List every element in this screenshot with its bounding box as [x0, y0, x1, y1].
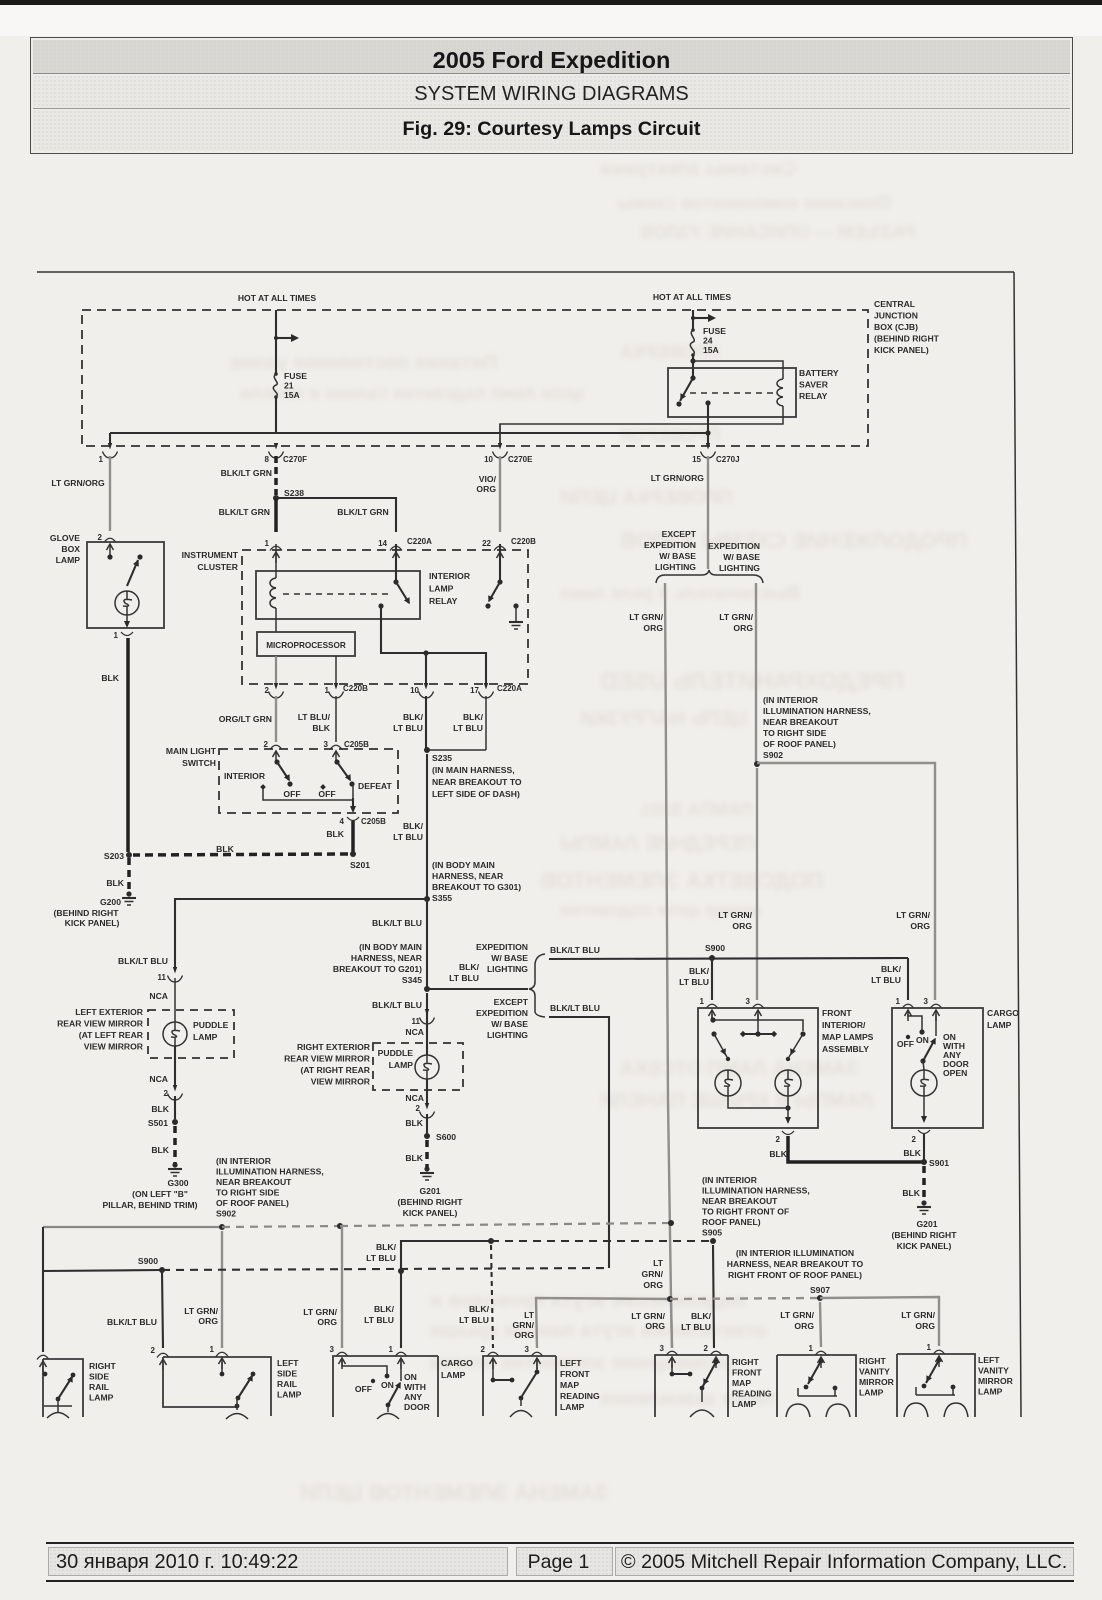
svg-text:ORG: ORG [514, 1330, 534, 1340]
relay switch pivot dot [690, 375, 695, 380]
svg-text:BLK: BLK [312, 723, 330, 733]
svg-text:S355: S355 [432, 893, 452, 903]
svg-text:BLK/LT GRN: BLK/LT GRN [219, 507, 270, 517]
svg-text:ORG: ORG [794, 1321, 814, 1331]
wire S902 branch to cargo lamp pin 3 [757, 763, 935, 1000]
svg-text:15A: 15A [284, 390, 300, 400]
svg-text:(IN INTERIOR: (IN INTERIOR [763, 695, 819, 705]
svg-text:HARNESS, NEAR: HARNESS, NEAR [432, 871, 504, 881]
svg-text:(IN INTERIOR ILLUMINATION: (IN INTERIOR ILLUMINATION [736, 1248, 854, 1258]
svg-text:RAIL: RAIL [89, 1382, 109, 1392]
svg-text:LAMP: LAMP [560, 1402, 585, 1412]
rfm switch arm [703, 1362, 716, 1386]
right vanity bulbs [786, 1404, 810, 1417]
cargo pin3 wire [935, 1014, 937, 1036]
bus S902 dashed to except-wire [340, 1223, 671, 1226]
svg-text:SIDE: SIDE [277, 1369, 297, 1379]
connector pin 22 C220B into cluster [494, 546, 506, 550]
interior contact dot [260, 784, 266, 790]
svg-text:BLK: BLK [769, 1149, 787, 1159]
switch connector pin 2 [270, 745, 282, 749]
cluster relay switch feed from pin 14 [395, 544, 397, 582]
svg-text:PILLAR, BEHIND TRIM): PILLAR, BEHIND TRIM) [102, 1200, 197, 1210]
right rail switch arm [58, 1377, 72, 1399]
ground G200 [126, 891, 131, 896]
svg-text:MAP: MAP [732, 1378, 751, 1388]
cargo bottom pin1 wire [400, 1360, 402, 1381]
svg-text:EXPEDITION: EXPEDITION [476, 1008, 528, 1018]
svg-text:FRONT: FRONT [560, 1369, 590, 1379]
svg-text:LT BLU: LT BLU [366, 1253, 396, 1263]
right map lamp arm end dot [786, 1057, 790, 1061]
svg-text:LT GRN/: LT GRN/ [184, 1306, 218, 1316]
svg-text:24: 24 [703, 336, 713, 346]
right front map reading lamp box [655, 1355, 728, 1417]
svg-text:BLK/LT BLU: BLK/LT BLU [118, 956, 168, 966]
svg-text:RAIL: RAIL [277, 1379, 297, 1389]
relay coil output wire [500, 406, 783, 444]
switch arm 1 pivot dot [274, 759, 279, 764]
svg-text:OFF: OFF [318, 789, 335, 799]
wire LT GRN/ORG to glove box lamp [109, 456, 111, 531]
bus S905 dashed [491, 1240, 713, 1242]
wire fuse 24 to relay [692, 355, 694, 378]
brace expedition split [529, 954, 545, 1017]
svg-text:LEFT: LEFT [560, 1358, 582, 1368]
svg-text:TO RIGHT SIDE: TO RIGHT SIDE [216, 1188, 280, 1198]
junction dot on CJB bus at relay output [705, 430, 710, 435]
svg-text:LAMP: LAMP [429, 584, 454, 594]
wire ORG/LT GRN pin2 to switch [275, 696, 277, 742]
svg-text:SAVER: SAVER [799, 380, 829, 390]
svg-text:1: 1 [809, 1344, 814, 1353]
svg-text:LAMP: LAMP [193, 1032, 218, 1042]
svg-text:LIGHTING: LIGHTING [487, 964, 528, 974]
svg-text:(BEHIND RIGHT: (BEHIND RIGHT [398, 1197, 464, 1207]
left rail connector pin 2 [157, 1353, 169, 1357]
svg-text:BLK/: BLK/ [403, 821, 424, 831]
svg-text:W/ BASE: W/ BASE [491, 1019, 528, 1029]
switch from pin 22 feed [499, 544, 501, 582]
splice S901 [921, 1159, 927, 1165]
svg-text:LIGHTING: LIGHTING [655, 562, 696, 572]
svg-text:NEAR BREAKOUT: NEAR BREAKOUT [763, 717, 839, 727]
svg-text:OPEN: OPEN [943, 1068, 967, 1078]
svg-text:MAIN LIGHT: MAIN LIGHT [166, 746, 217, 756]
svg-text:11: 11 [412, 1017, 421, 1026]
svg-text:BLK/: BLK/ [463, 712, 484, 722]
header figure caption band: Fig. 29 Courtesy Lamps Circuit [33, 110, 1070, 151]
svg-text:1: 1 [896, 997, 901, 1006]
right side rail lamp box [43, 1359, 83, 1417]
junction dot fuse 24 output [690, 358, 695, 363]
svg-text:REAR VIEW MIRROR: REAR VIEW MIRROR [284, 1054, 371, 1064]
svg-text:OF ROOF PANEL): OF ROOF PANEL) [763, 739, 836, 749]
cargo feed jog [908, 1014, 922, 1030]
cargo bottom connector pin 3 [336, 1352, 348, 1356]
svg-text:G201: G201 [419, 1186, 440, 1196]
svg-text:FUSE: FUSE [284, 371, 307, 381]
svg-text:LT GRN/: LT GRN/ [901, 1310, 935, 1320]
wire BLK/LT GRN S238 to cluster pin 1 [274, 498, 278, 532]
cluster relay output wire [381, 606, 486, 684]
wire from hot feed to fuse 24 [692, 310, 694, 330]
wire right front map pin3 drop [671, 1303, 672, 1348]
svg-text:MIRROR: MIRROR [859, 1377, 895, 1387]
microprocessor box [257, 632, 355, 656]
right vanity connector pin 1 [815, 1351, 827, 1355]
microprocessor output wire pin 2 [275, 656, 277, 684]
svg-text:ORG: ORG [317, 1317, 337, 1327]
cargo bulb output [923, 1096, 925, 1120]
wire BLK/LT BLU S355 to S345 [426, 902, 428, 989]
svg-text:OF ROOF PANEL): OF ROOF PANEL) [216, 1198, 289, 1208]
left side rail lamp box [163, 1357, 271, 1416]
feed tap arrow at fuse 24 wire [693, 317, 709, 319]
svg-text:BLK: BLK [405, 1153, 423, 1163]
right exterior mirror dashed box [373, 1043, 463, 1090]
connector pin 14 C220A into cluster [390, 546, 402, 550]
svg-text:BLK/LT GRN: BLK/LT GRN [337, 507, 388, 517]
svg-text:2: 2 [98, 533, 103, 542]
svg-text:ILLUMINATION HARNESS,: ILLUMINATION HARNESS, [763, 706, 871, 716]
svg-text:LIGHTING: LIGHTING [719, 563, 760, 573]
svg-text:RIGHT FRONT OF ROOF PANEL): RIGHT FRONT OF ROOF PANEL) [728, 1270, 862, 1280]
wire BLK map lamps to S901 [788, 1136, 924, 1162]
wire from hot feed to fuse 21 [275, 310, 277, 374]
svg-text:1: 1 [114, 631, 119, 640]
svg-text:LEFT SIDE OF DASH): LEFT SIDE OF DASH) [432, 789, 520, 799]
svg-text:LT BLU: LT BLU [393, 832, 423, 842]
footer page cell [516, 1547, 613, 1576]
cluster bottom connector pin 17 C220A [484, 683, 488, 690]
svg-text:W/ BASE: W/ BASE [659, 551, 696, 561]
wire C270E riser [499, 424, 501, 444]
right map lamp bulb [775, 1070, 801, 1096]
left map lamp switch contact [711, 1031, 716, 1036]
svg-text:LT GRN/: LT GRN/ [629, 612, 663, 622]
cargo bottom ON dot [385, 1374, 390, 1379]
svg-text:(BEHIND RIGHT: (BEHIND RIGHT [874, 334, 940, 344]
switch output junction [352, 784, 354, 798]
page header block [30, 37, 1073, 154]
svg-text:WITH: WITH [404, 1382, 426, 1392]
svg-text:HARNESS, NEAR BREAKOUT TO: HARNESS, NEAR BREAKOUT TO [727, 1259, 864, 1269]
svg-text:LT BLU: LT BLU [871, 975, 901, 985]
left map lamp bulb [715, 1070, 741, 1096]
left map lamp arm end dot [726, 1057, 730, 1061]
svg-text:1: 1 [325, 686, 330, 695]
lfm switch arm [522, 1372, 537, 1396]
left exterior mirror dashed box [148, 1010, 234, 1058]
svg-text:C205B: C205B [344, 740, 369, 749]
diagram frame top border [37, 271, 1014, 273]
svg-text:C220B: C220B [511, 537, 536, 546]
defeat contact dot [320, 784, 326, 790]
svg-text:4: 4 [340, 817, 345, 826]
svg-text:READING: READING [560, 1391, 600, 1401]
cargo OFF contact dot [906, 1035, 910, 1039]
svg-text:ORG: ORG [645, 1321, 665, 1331]
cargo bottom switch arm [388, 1383, 400, 1405]
svg-text:PUDDLE: PUDDLE [378, 1048, 414, 1058]
svg-text:VIEW MIRROR: VIEW MIRROR [84, 1042, 144, 1052]
svg-text:BLK/: BLK/ [881, 964, 902, 974]
wire into right mirror [426, 993, 428, 1055]
svg-text:LT BLU: LT BLU [393, 723, 423, 733]
svg-text:1: 1 [210, 1345, 215, 1354]
right map lamp switch arm [789, 1034, 803, 1057]
svg-text:VIO/: VIO/ [479, 474, 497, 484]
right rail arm lower dot [56, 1397, 61, 1402]
wire BLK glove box to S203 [126, 638, 130, 852]
rfm connector pin 3 [666, 1351, 678, 1355]
cluster internal ground stem [515, 606, 517, 621]
connector pin 8 C270F [274, 443, 278, 450]
glove box lamp connector pin 2 [104, 538, 116, 542]
svg-text:FRONT: FRONT [822, 1008, 852, 1018]
wire S907 to right vanity [820, 1302, 821, 1347]
svg-text:BLK: BLK [216, 844, 234, 854]
map lamps output wire [787, 1108, 789, 1122]
svg-text:MIRROR: MIRROR [978, 1376, 1014, 1386]
right map lamp switch contact [800, 1031, 805, 1036]
wire LT GRN/ORG from C270J [707, 456, 709, 569]
feed tap arrow at fuse 21 wire [276, 337, 292, 339]
right side rail lamp connector [37, 1355, 49, 1359]
svg-text:C220B: C220B [343, 684, 368, 693]
svg-text:RELAY: RELAY [799, 391, 828, 401]
svg-text:ON: ON [381, 1380, 394, 1390]
svg-text:RELAY: RELAY [429, 596, 458, 606]
svg-text:ON: ON [404, 1372, 417, 1382]
left puddle lamp bulb [163, 1022, 187, 1046]
svg-text:EXPEDITION: EXPEDITION [708, 541, 760, 551]
svg-text:LAMP: LAMP [56, 555, 81, 565]
map lamps feed bar [712, 1014, 803, 1031]
pin22 switch contact dot [485, 603, 490, 608]
svg-text:EXCEPT: EXCEPT [494, 997, 529, 1007]
brace split under C270J [656, 570, 763, 583]
right mirror connector pin 11 [425, 1009, 429, 1016]
svg-text:(IN BODY MAIN: (IN BODY MAIN [359, 942, 422, 952]
lfm pin2 stub [492, 1360, 494, 1378]
svg-text:ON: ON [916, 1035, 929, 1045]
svg-text:CENTRAL: CENTRAL [874, 299, 915, 309]
cargo switch arm [923, 1039, 935, 1061]
svg-text:2: 2 [264, 740, 269, 749]
bus S900 dashed part [162, 1268, 608, 1270]
svg-text:LAMP: LAMP [987, 1020, 1012, 1030]
pin22 switch arm [489, 582, 500, 601]
svg-text:3: 3 [746, 997, 751, 1006]
svg-text:LAMP: LAMP [89, 1393, 114, 1403]
svg-text:2: 2 [265, 686, 270, 695]
bus corner drop to connector 1 [109, 433, 111, 444]
svg-text:C270J: C270J [716, 455, 740, 464]
left vanity mirror lamp box [897, 1354, 975, 1417]
svg-text:22: 22 [482, 539, 491, 548]
svg-text:S600: S600 [436, 1132, 456, 1142]
svg-text:1: 1 [700, 997, 705, 1006]
bus S902 horizontal (solid part) [43, 1226, 222, 1228]
left rail connector pin 1 [216, 1352, 228, 1356]
svg-text:(BEHIND RIGHT: (BEHIND RIGHT [892, 1230, 958, 1240]
left rail bulb [235, 1404, 240, 1409]
wire BLK/LT BLU upper branch to S900 [549, 958, 908, 959]
svg-text:8: 8 [265, 455, 270, 464]
svg-text:BLK/LT GRN: BLK/LT GRN [221, 468, 272, 478]
svg-text:G300: G300 [167, 1178, 188, 1188]
main light switch dashed box [219, 749, 398, 813]
svg-text:LT: LT [524, 1310, 535, 1320]
interior lamp relay coil [270, 578, 276, 588]
svg-text:LT BLU: LT BLU [364, 1315, 394, 1325]
right puddle lamp bulb [415, 1055, 439, 1079]
interior lamp relay box [256, 571, 420, 619]
cargo ON contact dot [919, 1029, 924, 1034]
svg-text:S203: S203 [104, 851, 124, 861]
map lamps T-bar [743, 1033, 774, 1035]
svg-text:3: 3 [330, 1345, 335, 1354]
svg-text:CLUSTER: CLUSTER [197, 562, 238, 572]
wire BLK S501 to G300 (dashed) [173, 1126, 177, 1164]
left vanity switch arm [926, 1360, 939, 1383]
cargo bottom lamp box [333, 1356, 438, 1417]
cargo bottom bulb [387, 1405, 389, 1412]
svg-text:BLK: BLK [101, 673, 119, 683]
header title band: 2005 Ford Expedition [33, 40, 1070, 74]
svg-text:2: 2 [151, 1346, 156, 1355]
svg-text:BLK/: BLK/ [469, 1304, 490, 1314]
svg-text:LAMP: LAMP [859, 1388, 884, 1398]
svg-text:LAMP: LAMP [277, 1390, 302, 1400]
svg-text:RIGHT EXTERIOR: RIGHT EXTERIOR [297, 1042, 371, 1052]
battery saver relay coil [777, 379, 783, 388]
bus S902 dashed to cargo drop [222, 1226, 340, 1227]
svg-text:LT BLU: LT BLU [453, 723, 483, 733]
connector pin 1 (CJB) [108, 443, 112, 450]
left mirror connector pin 2 [173, 1085, 177, 1092]
switch arm 2 [337, 762, 350, 780]
svg-text:RIGHT: RIGHT [859, 1356, 886, 1366]
lfm connector pin 2 [487, 1352, 499, 1356]
svg-text:LT: LT [653, 1258, 664, 1268]
svg-text:LEFT: LEFT [978, 1355, 1000, 1365]
svg-text:LEFT: LEFT [277, 1358, 299, 1368]
svg-text:BLK: BLK [326, 829, 344, 839]
cargo bulb feed [923, 1061, 924, 1070]
svg-text:ORG/LT GRN: ORG/LT GRN [219, 714, 272, 724]
svg-text:LT BLU: LT BLU [449, 973, 479, 983]
junction dot to pin 10 [423, 650, 428, 655]
svg-text:S201: S201 [350, 860, 370, 870]
svg-text:LT BLU: LT BLU [681, 1322, 711, 1332]
right vanity mirror lamp box [777, 1355, 856, 1417]
svg-text:LT GRN/: LT GRN/ [780, 1310, 814, 1320]
svg-text:OFF: OFF [355, 1384, 372, 1394]
glove box lamp bulb [115, 591, 139, 615]
svg-text:LEFT EXTERIOR: LEFT EXTERIOR [75, 1007, 144, 1017]
right map bulb drop [787, 1096, 789, 1108]
bus S900 solid part [43, 1270, 162, 1271]
svg-text:INTERIOR: INTERIOR [429, 571, 471, 581]
ground G201 (right mirror) [424, 1166, 429, 1171]
svg-text:2: 2 [704, 1344, 709, 1353]
cluster relay switch pivot dot [393, 579, 398, 584]
wire BLK to S501 [174, 1096, 176, 1119]
pin22 switch pivot dot [497, 579, 502, 584]
rfm bulb [701, 1388, 703, 1402]
ground G201 (cargo) [921, 1200, 926, 1205]
svg-text:HOT AT ALL TIMES: HOT AT ALL TIMES [238, 293, 317, 303]
splice S902 (upper) [754, 761, 760, 767]
lfm bulb [520, 1398, 522, 1406]
svg-text:C270F: C270F [283, 455, 307, 464]
cargo lamp bulb [911, 1070, 937, 1096]
svg-text:ROOF PANEL): ROOF PANEL) [702, 1217, 761, 1227]
svg-text:2: 2 [481, 1345, 486, 1354]
svg-text:BLK: BLK [903, 1148, 921, 1158]
svg-text:BLK/: BLK/ [374, 1304, 395, 1314]
splice S235 branch wire [427, 749, 486, 751]
drop wire to left rail pin 1 [221, 1231, 223, 1348]
svg-text:W/ BASE: W/ BASE [723, 552, 760, 562]
svg-text:LT GRN/: LT GRN/ [631, 1311, 665, 1321]
glove box switch arm [127, 560, 138, 586]
cargo bottom feed jog [342, 1360, 387, 1374]
wire BLK/LT BLU from pin 10 [425, 696, 427, 750]
svg-text:BLK/: BLK/ [376, 1242, 397, 1252]
cluster bottom connector pin 2 [274, 683, 278, 690]
relay coil feed wire over box [693, 361, 783, 379]
svg-text:GRN/: GRN/ [642, 1269, 664, 1279]
left vanity connector pin 1 [933, 1350, 945, 1354]
cluster internal ground symbol [509, 621, 523, 623]
svg-text:VANITY: VANITY [978, 1366, 1009, 1376]
svg-text:TO RIGHT FRONT OF: TO RIGHT FRONT OF [702, 1207, 789, 1217]
svg-text:LAMP: LAMP [441, 1370, 466, 1380]
svg-text:ORG: ORG [733, 623, 753, 633]
svg-text:MAP LAMPS: MAP LAMPS [822, 1032, 874, 1042]
wire S345 to brace [427, 988, 528, 990]
wire S905 to right front map pin 2 [713, 1245, 714, 1348]
left rail arm lower dot [236, 1396, 241, 1401]
svg-text:FRONT: FRONT [732, 1368, 762, 1378]
rfm switch pivot dot [714, 1360, 719, 1365]
svg-text:KICK PANEL): KICK PANEL) [874, 345, 929, 355]
svg-text:BLK/: BLK/ [689, 966, 710, 976]
wire BLK cargo to S901 [923, 1134, 925, 1162]
right rail internal feed dot [43, 1372, 48, 1377]
splice S900 (lower) [159, 1267, 165, 1273]
splice S345 [424, 986, 430, 992]
diagram frame right border [1014, 272, 1021, 1417]
faint bleed-through text from reverse side of scanned page [600, 158, 797, 181]
svg-text:(AT RIGHT REAR: (AT RIGHT REAR [300, 1065, 370, 1075]
svg-text:INSTRUMENT: INSTRUMENT [182, 550, 239, 560]
scanner black top edge bar [0, 0, 1102, 5]
left map lamp switch arm [714, 1034, 727, 1057]
splice S900 (upper) [709, 955, 715, 961]
svg-text:HOT AT ALL TIMES: HOT AT ALL TIMES [653, 292, 732, 302]
svg-text:CARGO: CARGO [441, 1358, 473, 1368]
bus S905 corner [401, 1241, 491, 1271]
splice S600 [424, 1133, 430, 1139]
svg-text:DEFEAT: DEFEAT [358, 781, 392, 791]
svg-text:2: 2 [776, 1135, 781, 1144]
svg-text:BLK/LT BLU: BLK/LT BLU [550, 945, 600, 955]
